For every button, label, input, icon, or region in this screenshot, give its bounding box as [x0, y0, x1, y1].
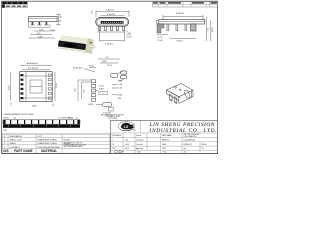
svg-text:0.48: 0.48: [127, 34, 131, 36]
svg-text:(6.02): (6.02): [102, 61, 107, 63]
svg-text:1.78: 1.78: [53, 104, 55, 108]
title block: [111, 120, 218, 153]
svg-text:TYPE CONNECTOR: TYPE CONNECTOR: [184, 136, 197, 138]
view A side section: [29, 14, 62, 38]
svg-text:(1.27): (1.27): [158, 37, 163, 39]
svg-text:NO.: NO.: [3, 149, 9, 153]
svg-text:Treatment: Treatment: [136, 139, 144, 142]
right rows: [162, 134, 173, 150]
svg-text:0.80: 0.80: [118, 98, 122, 100]
view D top view: [8, 62, 57, 108]
svg-text:±0.25: ±0.25: [125, 144, 129, 146]
view F pcb layout: [73, 57, 127, 120]
svg-text:0.30: 0.30: [52, 30, 56, 32]
svg-text:PIN ASSIGNMENT FRONT VIEW: PIN ASSIGNMENT FRONT VIEW: [4, 113, 34, 116]
svg-text:NICKEL: NICKEL: [64, 140, 71, 142]
svg-text:3.04: 3.04: [84, 90, 86, 94]
svg-text:PCB: PCB: [4, 130, 7, 132]
svg-text:8.94±0.1: 8.94±0.1: [106, 10, 115, 12]
svg-text:4.50: 4.50: [37, 33, 41, 35]
svg-text:0.30: 0.30: [119, 88, 123, 90]
svg-text:Checked: Checked: [136, 144, 143, 146]
svg-text:(0.84): (0.84): [99, 88, 104, 90]
svg-text:P 0.15: P 0.15: [107, 65, 112, 67]
svg-text:5:1: 5:1: [202, 148, 204, 150]
right mid callouts: [118, 80, 124, 82]
svg-text:(5.84): (5.84): [38, 36, 43, 38]
svg-text:±0.15: ±0.15: [125, 148, 129, 150]
svg-text:Drawn: Drawn: [136, 134, 141, 137]
svg-text:3.26: 3.26: [58, 20, 62, 22]
svg-text:(3.99): (3.99): [212, 27, 214, 32]
svg-text:(7.26): (7.26): [56, 83, 58, 88]
grid rows: [111, 136, 218, 138]
svg-text:05/DEC/07: 05/DEC/07: [184, 144, 192, 146]
svg-text:LS: LS: [124, 125, 129, 129]
mid col: [136, 134, 144, 150]
svg-text:INSULATOR: INSULATOR: [10, 135, 23, 138]
svg-text:PART NAME: PART NAME: [162, 134, 173, 137]
svg-text:7.30±0.2: 7.30±0.2: [176, 41, 183, 43]
svg-text:(2.54): (2.54): [158, 40, 163, 42]
svg-text:SHELL: SHELL: [10, 143, 18, 145]
svg-text:STAINLESS STEEL: STAINLESS STEEL: [38, 139, 58, 142]
tolerance col: [112, 134, 130, 150]
svg-text:1.08: 1.08: [58, 17, 62, 19]
parts table: [2, 134, 110, 153]
bottom oval pad: [102, 102, 111, 106]
svg-text:PART NAME: PART NAME: [14, 149, 34, 153]
3D shaded render: [58, 35, 95, 54]
ECN strip top-right: [153, 2, 218, 7]
svg-text:P0.25: P0.25: [99, 86, 104, 88]
view C top section: [157, 13, 215, 42]
svg-text:4.32±0.1: 4.32±0.1: [105, 44, 114, 46]
svg-text:SHELL CLIP: SHELL CLIP: [10, 140, 23, 142]
svg-text:Duke: Duke: [137, 152, 141, 154]
svg-text:(1.27): (1.27): [39, 29, 44, 31]
svg-text:8.28±0.1: 8.28±0.1: [176, 13, 185, 15]
svg-text:(TOP VIEW): (TOP VIEW): [108, 118, 117, 120]
logo: [118, 122, 135, 131]
svg-text:±0.3: ±0.3: [125, 140, 128, 142]
svg-text:Su: Su: [184, 152, 186, 154]
svg-text:(3.26): (3.26): [32, 106, 37, 108]
svg-text:1.78: 1.78: [11, 103, 13, 107]
sheet border: [2, 1, 218, 153]
svg-text:STAINLESS STEEL: STAINLESS STEEL: [38, 142, 58, 145]
svg-text:1.26: 1.26: [92, 11, 94, 15]
svg-text:(CLR): (CLR): [127, 37, 132, 39]
svg-text:7.74: 7.74: [105, 57, 109, 59]
svg-text:0.28: 0.28: [119, 80, 123, 82]
bottom row: [115, 150, 118, 153]
svg-text:(9.31): (9.31): [8, 85, 10, 90]
svg-text:Ø0.65: Ø0.65: [89, 104, 94, 106]
pin assignment strip: [3, 113, 80, 132]
svg-text:Approved: Approved: [136, 147, 143, 150]
svg-text:MATERIAL: MATERIAL: [41, 149, 57, 153]
svg-text:P0.80=4.00: P0.80=4.00: [73, 68, 82, 70]
svg-text:USB TYPE-C 16PIN SMT: USB TYPE-C 16PIN SMT: [184, 134, 200, 136]
svg-text:A=8.94±0.1: A=8.94±0.1: [27, 62, 39, 65]
svg-text:A 7.26±0.1: A 7.26±0.1: [28, 67, 39, 70]
left pad column: [91, 80, 95, 101]
svg-text:LCP: LCP: [38, 136, 43, 138]
revision table top-left: [2, 2, 27, 8]
svg-text:PIN B12: PIN B12: [4, 118, 10, 120]
svg-text:1.04±0.05: 1.04±0.05: [103, 112, 111, 114]
svg-text:0.60: 0.60: [119, 84, 123, 86]
svg-text:B1: B1: [76, 118, 78, 120]
svg-text:PART NO.: PART NO.: [162, 139, 170, 142]
svg-text:3.11: 3.11: [208, 28, 210, 31]
svg-text:INDUSTRIAL CO., LTD.: INDUSTRIAL CO., LTD.: [149, 128, 218, 134]
svg-text:REV:A: REV:A: [202, 143, 208, 146]
view B front face: [92, 10, 132, 46]
svg-text:UNIT: UNIT: [162, 148, 166, 150]
svg-text:(0.65): (0.65): [118, 95, 123, 97]
svg-text:4.82: 4.82: [75, 89, 77, 93]
left bracket dims: [77, 80, 79, 101]
top-right pads: [111, 73, 118, 77]
iso line drawing: [167, 84, 194, 104]
svg-text:LCS-CM03-016: LCS-CM03-016: [184, 140, 196, 142]
